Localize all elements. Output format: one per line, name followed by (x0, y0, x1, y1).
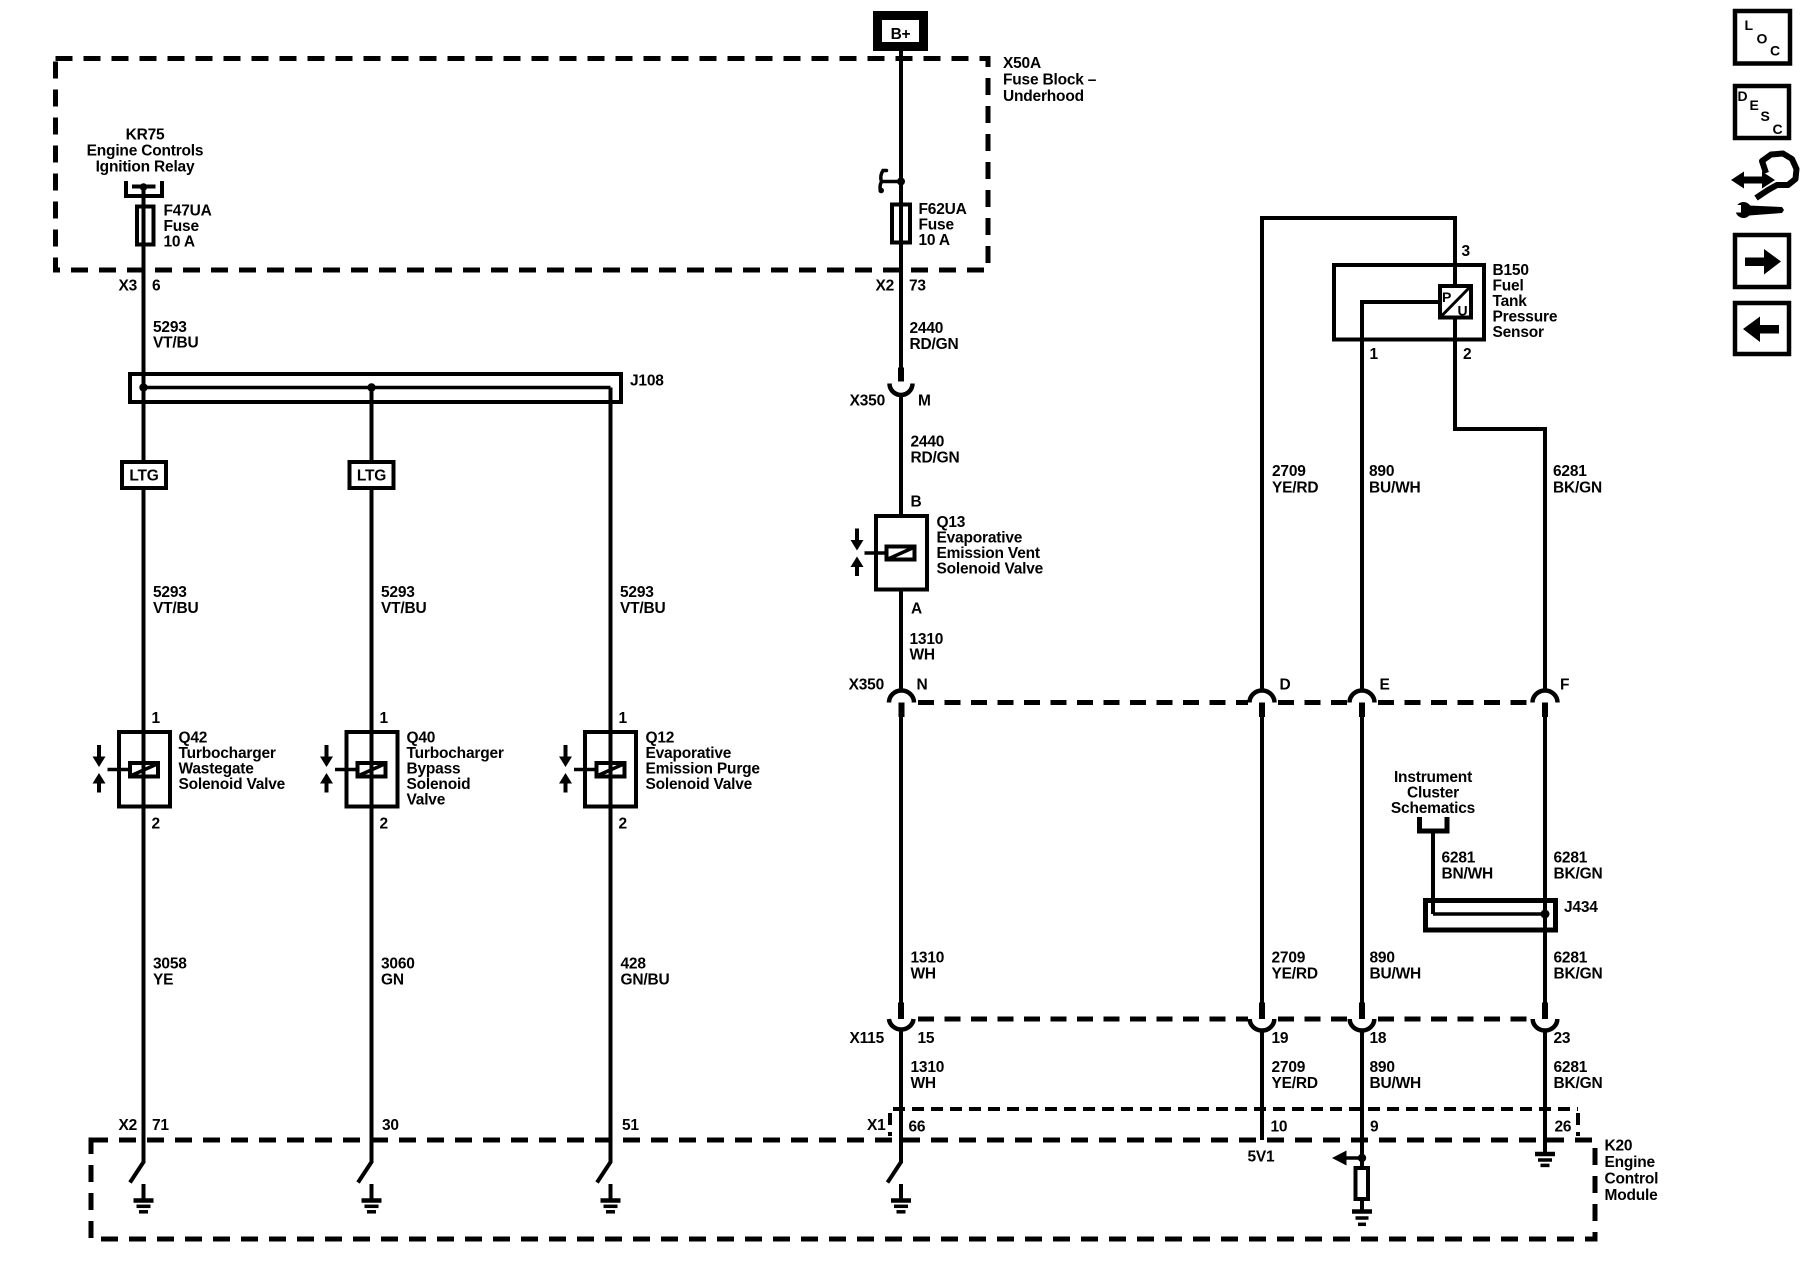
label wire 2709 YE/RD upper (1272, 463, 1318, 497)
svg-text:YE/RD: YE/RD (1272, 1075, 1318, 1092)
svg-text:E: E (1750, 97, 1759, 113)
svg-text:Underhood: Underhood (1003, 88, 1084, 105)
label wire 428 GN/BU (621, 956, 670, 989)
label Q40 Turbocharger Bypass Solenoid Valve (407, 730, 504, 809)
svg-text:1: 1 (380, 710, 389, 727)
ground ECM pin 66 (891, 1184, 911, 1212)
svg-text:Q12: Q12 (646, 730, 675, 747)
wire colD X350 D to X115 19 (2709 YE/RD) (1260, 717, 1264, 1003)
svg-text:VT/BU: VT/BU (620, 600, 666, 617)
svg-text:S: S (1761, 108, 1770, 124)
svg-text:Cluster: Cluster (1407, 785, 1459, 802)
wire col1 relay KR75 to J108 (5293 VT/BU) (142, 187, 146, 388)
label wire 890 BU/WH above X115 (1370, 950, 1422, 983)
svg-text:18: 18 (1370, 1030, 1387, 1047)
svg-text:Wastegate: Wastegate (179, 761, 255, 778)
svg-text:WH: WH (911, 1075, 936, 1092)
svg-text:LTG: LTG (129, 468, 158, 485)
svg-text:6281: 6281 (1442, 850, 1476, 867)
svg-text:WH: WH (911, 966, 936, 983)
wire col4 B+ to X350 M (2440 RD/GN) (899, 51, 903, 368)
wire col2 LTG to ECM pin 30 (5293 VT/BU then 3060 GN) (370, 490, 374, 1163)
svg-text:5293: 5293 (381, 584, 415, 601)
svg-text:1310: 1310 (910, 631, 944, 648)
svg-text:Instrument: Instrument (1394, 769, 1472, 786)
fuse block bus tap hook at col4 (878, 171, 905, 194)
label wire 1310 WH above X115 (911, 950, 945, 983)
label wire 2440 RD/GN upper (910, 320, 959, 353)
valve arrows Q13 (851, 529, 864, 577)
svg-text:VT/BU: VT/BU (153, 600, 199, 617)
svg-text:6: 6 (152, 278, 161, 295)
switch blade ECM pin 71 (130, 1162, 144, 1183)
svg-text:30: 30 (382, 1117, 399, 1134)
svg-text:890: 890 (1369, 463, 1394, 480)
connector X350 F arc (1533, 691, 1558, 718)
svg-text:6281: 6281 (1554, 950, 1588, 967)
svg-text:19: 19 (1272, 1030, 1289, 1047)
connector row X115 dashed line (918, 1017, 1530, 1022)
wire colE X115 18 to ECM pin 9 (890 BU/WH) (1360, 1031, 1364, 1167)
wire col4 X115 15 to ECM pin 66 (1310 WH) (899, 1031, 903, 1164)
wire colD X115 19 to ECM pin 10 (2709 YE/RD) (1260, 1031, 1264, 1141)
ground ECM pin 30 (362, 1184, 382, 1212)
pin 51 ECM (622, 1117, 639, 1134)
icon back arrow button (1735, 303, 1789, 354)
svg-text:Bypass: Bypass (407, 761, 461, 778)
svg-text:D: D (1280, 677, 1291, 694)
svg-text:X115: X115 (849, 1030, 884, 1047)
svg-text:K20: K20 (1605, 1138, 1633, 1155)
pin 23 X115 (1554, 1030, 1571, 1047)
icon LOC button (1735, 11, 1790, 64)
svg-text:GN: GN (381, 972, 404, 989)
svg-text:J108: J108 (630, 373, 664, 390)
switch blade ECM pin 66 (888, 1162, 902, 1183)
ground ECM pin 71 (134, 1184, 154, 1212)
pin 15 X115 (918, 1030, 935, 1047)
solenoid valve Q12 body (574, 732, 636, 807)
inline connector LTG col2 (350, 462, 394, 488)
svg-text:X350: X350 (849, 677, 884, 694)
valve arrows Q40 (320, 745, 333, 793)
label Q13 Evaporative Emission Vent Solenoid Valve (937, 514, 1044, 578)
relay KR75 contact symbol (126, 181, 162, 203)
svg-text:F62UA: F62UA (919, 201, 967, 218)
solenoid valve Q42 body (108, 732, 171, 807)
pin 1 Q12 (619, 710, 628, 727)
svg-text:Fuse: Fuse (164, 218, 200, 235)
svg-text:73: 73 (909, 278, 926, 295)
connector X350 E arc (1350, 691, 1375, 718)
pin 30 ECM (382, 1117, 399, 1134)
wire colD B150 pin 3 across top and down to X350 D (2709 YE/RD) (1262, 218, 1455, 691)
svg-text:Solenoid Valve: Solenoid Valve (937, 561, 1044, 578)
svg-text:Emission Purge: Emission Purge (646, 761, 761, 778)
ground ECM pin 51 (601, 1184, 621, 1212)
svg-text:Sensor: Sensor (1493, 324, 1545, 341)
svg-text:RD/GN: RD/GN (910, 336, 959, 353)
svg-text:YE/RD: YE/RD (1272, 966, 1318, 983)
svg-text:Solenoid Valve: Solenoid Valve (646, 776, 753, 793)
pin 1 Q40 (380, 710, 389, 727)
svg-text:10 A: 10 A (919, 232, 950, 249)
connector X115 19 (1250, 1003, 1275, 1031)
svg-text:2709: 2709 (1272, 463, 1306, 480)
pin 1 B150 (1370, 346, 1379, 363)
svg-text:O: O (1757, 31, 1768, 47)
label wire 3060 GN (381, 956, 415, 989)
label wire 5293 VT/BU col3 (620, 584, 666, 617)
wire col1 J108 to LTG (142, 388, 146, 461)
solenoid valve Q40 body (335, 732, 398, 807)
icon forward arrow button (1735, 235, 1789, 287)
svg-text:3: 3 (1462, 243, 1471, 260)
svg-text:890: 890 (1370, 1059, 1395, 1076)
fuse F62UA (892, 205, 910, 243)
solenoid valve Q13 body (865, 516, 928, 590)
label B150 Fuel Tank Pressure Sensor (1493, 262, 1558, 341)
svg-text:Engine Controls: Engine Controls (87, 143, 204, 160)
pin 19 X115 (1272, 1030, 1289, 1047)
connector row X350 dashed line (918, 700, 1530, 705)
svg-text:Pressure: Pressure (1493, 309, 1558, 326)
label fuse F47UA value (164, 203, 212, 251)
svg-text:L: L (1745, 17, 1754, 33)
label connector X2 pin 71 (118, 1117, 169, 1134)
svg-text:51: 51 (622, 1117, 639, 1134)
valve arrows Q42 (93, 745, 106, 793)
svg-text:Engine: Engine (1605, 1154, 1656, 1171)
icon harness routing tool (1731, 154, 1797, 219)
connector row X1 dotted line (890, 1109, 1578, 1136)
svg-text:BK/GN: BK/GN (1554, 866, 1603, 883)
svg-text:428: 428 (621, 956, 647, 973)
svg-text:Tank: Tank (1493, 293, 1528, 310)
switch blade ECM pin 51 (597, 1162, 611, 1183)
label connector X350 pin M (850, 393, 931, 410)
label wire 6281 BK/GN at J434 (1554, 850, 1603, 883)
instrument cluster bracket (1420, 817, 1448, 831)
svg-text:Evaporative: Evaporative (646, 745, 732, 762)
connector X115 23 (1533, 1003, 1558, 1031)
node junction dot col2 on J108 (367, 383, 375, 391)
svg-text:BU/WH: BU/WH (1370, 966, 1422, 983)
svg-text:YE: YE (153, 972, 173, 989)
wire colF B150 pin 2 down and over to X350 F (6281 BK/GN) (1455, 317, 1545, 691)
valve arrows Q12 (559, 745, 572, 793)
pin N X350 (917, 677, 928, 694)
svg-text:Solenoid: Solenoid (407, 776, 471, 793)
svg-text:VT/BU: VT/BU (153, 335, 199, 352)
svg-text:15: 15 (918, 1030, 935, 1047)
pin F X350 (1560, 677, 1569, 694)
svg-text:1: 1 (1370, 346, 1379, 363)
label wire 2440 RD/GN lower (911, 434, 960, 467)
svg-text:WH: WH (910, 647, 935, 664)
svg-text:D: D (1738, 88, 1748, 104)
label connector X350 N row (849, 677, 884, 694)
pin 26 ECM (1555, 1119, 1572, 1136)
svg-text:B150: B150 (1493, 262, 1529, 279)
label wire 5293 VT/BU col2 (381, 584, 427, 617)
icon DESC button (1735, 86, 1789, 138)
wire instrument cluster to J434 (6281 BN/WH) (1431, 831, 1435, 914)
svg-text:B: B (911, 494, 922, 511)
svg-text:Schematics: Schematics (1391, 800, 1475, 817)
svg-text:F: F (1560, 677, 1569, 694)
svg-text:N: N (917, 677, 928, 694)
wire colE B150 internal to pin 1 down to X350 E (890 BU/WH) (1362, 302, 1438, 691)
label wire 6281 BK/GN below X115 (1554, 1059, 1603, 1092)
label Q12 Evaporative Emission Purge Solenoid Valve (646, 730, 761, 794)
svg-text:2440: 2440 (910, 320, 944, 337)
svg-text:KR75: KR75 (126, 127, 165, 144)
wire col4 X350 N to X115 15 (1310 WH) (899, 717, 903, 1003)
svg-text:5293: 5293 (153, 319, 187, 336)
svg-text:BU/WH: BU/WH (1369, 480, 1421, 497)
svg-text:3060: 3060 (381, 956, 415, 973)
svg-text:B+: B+ (891, 26, 911, 43)
resistor ECM internal pull-up (1356, 1168, 1369, 1199)
svg-text:Turbocharger: Turbocharger (179, 745, 276, 762)
svg-text:5293: 5293 (153, 584, 187, 601)
svg-text:C: C (1770, 43, 1780, 59)
connector X115 18 (1350, 1003, 1375, 1031)
svg-text:YE/RD: YE/RD (1272, 480, 1318, 497)
label wire 6281 BK/GN upper (1553, 463, 1602, 497)
label connector X115 row (849, 1030, 884, 1047)
pin A Q13 (911, 601, 922, 618)
svg-text:GN/BU: GN/BU (621, 972, 670, 989)
label fuse F62UA value (919, 201, 967, 249)
svg-text:3058: 3058 (153, 956, 187, 973)
pin 2 Q12 (619, 816, 627, 833)
label Q42 Turbocharger Wastegate Solenoid Valve (179, 730, 286, 794)
label wire 2709 YE/RD below X115 (1272, 1059, 1318, 1092)
pin 66 ECM (909, 1119, 926, 1136)
battery feed B+ terminal (878, 16, 924, 47)
wire colF X115 23 to ECM pin 26 (6281 BK/GN) (1543, 1031, 1547, 1153)
svg-text:P: P (1442, 289, 1451, 305)
wire col2 J108 to LTG (370, 388, 374, 461)
svg-text:23: 23 (1554, 1030, 1571, 1047)
label wire 2709 YE/RD above X115 (1272, 950, 1318, 983)
connector X350 M female cup (890, 384, 913, 396)
svg-text:Ignition Relay: Ignition Relay (96, 159, 195, 176)
junction block J434 (1426, 901, 1556, 931)
svg-text:X50A: X50A (1003, 55, 1041, 72)
label J434 (1564, 899, 1598, 916)
connector X350 D arc (1250, 691, 1275, 718)
svg-text:2709: 2709 (1272, 950, 1306, 967)
pin D X350 (1280, 677, 1291, 694)
svg-text:Evaporative: Evaporative (937, 530, 1023, 547)
svg-text:BK/GN: BK/GN (1554, 1075, 1603, 1092)
svg-text:M: M (918, 393, 931, 410)
svg-text:1310: 1310 (911, 1059, 945, 1076)
svg-text:6281: 6281 (1554, 850, 1588, 867)
pin 3 B150 (1462, 243, 1471, 260)
svg-text:F47UA: F47UA (164, 203, 212, 220)
pin E X350 (1380, 677, 1390, 694)
svg-text:10 A: 10 A (164, 234, 195, 251)
svg-text:A: A (911, 601, 922, 618)
svg-text:BK/GN: BK/GN (1554, 966, 1603, 983)
label wire 890 BU/WH below X115 (1370, 1059, 1422, 1092)
svg-text:2: 2 (619, 816, 627, 833)
svg-text:Q42: Q42 (179, 730, 208, 747)
sensor B150 body (1334, 265, 1484, 340)
svg-text:X3: X3 (118, 278, 137, 295)
svg-text:2709: 2709 (1272, 1059, 1306, 1076)
label wire 1310 WH below Q13 (910, 631, 944, 664)
svg-text:LTG: LTG (357, 468, 386, 485)
svg-text:9: 9 (1370, 1119, 1379, 1136)
svg-text:71: 71 (152, 1117, 169, 1134)
svg-text:U: U (1458, 303, 1468, 319)
svg-text:2: 2 (152, 816, 160, 833)
svg-text:Q40: Q40 (407, 730, 436, 747)
svg-text:2: 2 (380, 816, 388, 833)
junction block J108 (130, 374, 621, 402)
ECM K20 dashed box (91, 1140, 1595, 1239)
label connector X2 pin 73 (875, 278, 926, 295)
svg-text:890: 890 (1370, 950, 1395, 967)
pin 1 Q42 (152, 710, 161, 727)
svg-text:X1: X1 (867, 1117, 886, 1134)
fuse F47UA (137, 207, 154, 245)
pin 18 X115 (1370, 1030, 1387, 1047)
node junction dot ECM pin 9 branch (1332, 1151, 1366, 1166)
wire colF X350 F through J434 to X115 23 (6281 BK/GN) (1543, 717, 1547, 1003)
wire col1 LTG to ECM pin 71 (5293 VT/BU then 3058 YE) (142, 490, 146, 1163)
svg-text:Solenoid Valve: Solenoid Valve (179, 776, 286, 793)
svg-text:Emission Vent: Emission Vent (937, 545, 1040, 562)
svg-text:5V1: 5V1 (1248, 1149, 1276, 1166)
svg-text:Turbocharger: Turbocharger (407, 745, 504, 762)
svg-text:BU/WH: BU/WH (1370, 1075, 1422, 1092)
connector X350 M male stub (898, 368, 904, 382)
svg-text:Fuse Block –: Fuse Block – (1003, 72, 1097, 89)
svg-text:VT/BU: VT/BU (381, 600, 427, 617)
label wire 1310 WH below X115 (911, 1059, 945, 1092)
svg-text:C: C (1773, 121, 1783, 137)
label wire 890 BU/WH upper (1369, 463, 1421, 497)
svg-text:2440: 2440 (911, 434, 945, 451)
svg-text:J434: J434 (1564, 899, 1598, 916)
svg-text:Module: Module (1605, 1187, 1659, 1204)
svg-text:X2: X2 (875, 278, 894, 295)
label wire 6281 BK/GN above X115 (1554, 950, 1603, 983)
svg-text:2: 2 (1463, 346, 1471, 363)
connector X350 N arc (889, 691, 914, 718)
wire col4 Q13 pin A to X350 N (1310 WH) (899, 592, 903, 692)
net 5V1 reference (1248, 1149, 1276, 1166)
svg-text:BN/WH: BN/WH (1442, 866, 1494, 883)
svg-text:E: E (1380, 677, 1390, 694)
svg-text:1310: 1310 (911, 950, 945, 967)
label K20 Engine Control Module (1605, 1138, 1659, 1205)
svg-text:Fuse: Fuse (919, 217, 955, 234)
svg-text:26: 26 (1555, 1119, 1572, 1136)
label wire 5293 VT/BU col1 upper (153, 319, 199, 352)
svg-text:6281: 6281 (1554, 1059, 1588, 1076)
svg-text:6281: 6281 (1553, 463, 1587, 480)
label connector X1 row (867, 1117, 886, 1134)
pin 2 Q42 (152, 816, 160, 833)
label connector X3 pin 6 (118, 278, 161, 295)
svg-text:10: 10 (1271, 1119, 1288, 1136)
pin 2 B150 (1463, 346, 1471, 363)
fuse block X50A dashed box (56, 59, 989, 271)
node junction dot col1 on J108 (139, 383, 147, 391)
connector X115 15 (889, 1003, 914, 1030)
svg-text:BK/GN: BK/GN (1553, 480, 1602, 497)
sensor B150 P/U transducer symbol (1440, 286, 1471, 319)
pin 9 ECM (1370, 1119, 1379, 1136)
svg-text:Fuel: Fuel (1493, 278, 1524, 295)
pin B Q13 (911, 494, 922, 511)
switch blade ECM pin 30 (358, 1162, 372, 1183)
ground ECM pin 9 resistor (1352, 1201, 1372, 1224)
svg-text:1: 1 (619, 710, 628, 727)
svg-text:Q13: Q13 (937, 514, 966, 531)
svg-text:66: 66 (909, 1119, 926, 1136)
inline connector LTG col1 (122, 462, 166, 488)
label J108 (630, 373, 664, 390)
wire col3 J108 to ECM pin 51 (5293 VT/BU then 428 GN/BU) (609, 388, 613, 1164)
wire colE X350 E to X115 18 (890 BU/WH) (1360, 717, 1364, 1003)
pin 10 ECM (1271, 1119, 1288, 1136)
svg-text:Control: Control (1605, 1171, 1659, 1188)
label wire 5293 VT/BU col1 lower (153, 584, 199, 617)
svg-text:1: 1 (152, 710, 161, 727)
label KR75 Engine Controls Ignition Relay (87, 127, 204, 176)
pin 2 Q40 (380, 816, 388, 833)
svg-text:Valve: Valve (407, 792, 446, 809)
label wire 6281 BN/WH (1442, 850, 1494, 883)
wire col4 X350 M to Q13 pin B (2440 RD/GN) (899, 395, 903, 514)
svg-text:5293: 5293 (620, 584, 654, 601)
ground ECM pin 26 (1535, 1140, 1555, 1165)
svg-text:RD/GN: RD/GN (911, 450, 960, 467)
svg-text:X350: X350 (850, 393, 885, 410)
label wire 3058 YE (153, 956, 187, 989)
label X50A Fuse Block Underhood (1003, 55, 1097, 105)
label Instrument Cluster Schematics (1391, 769, 1475, 817)
svg-text:X2: X2 (118, 1117, 137, 1134)
